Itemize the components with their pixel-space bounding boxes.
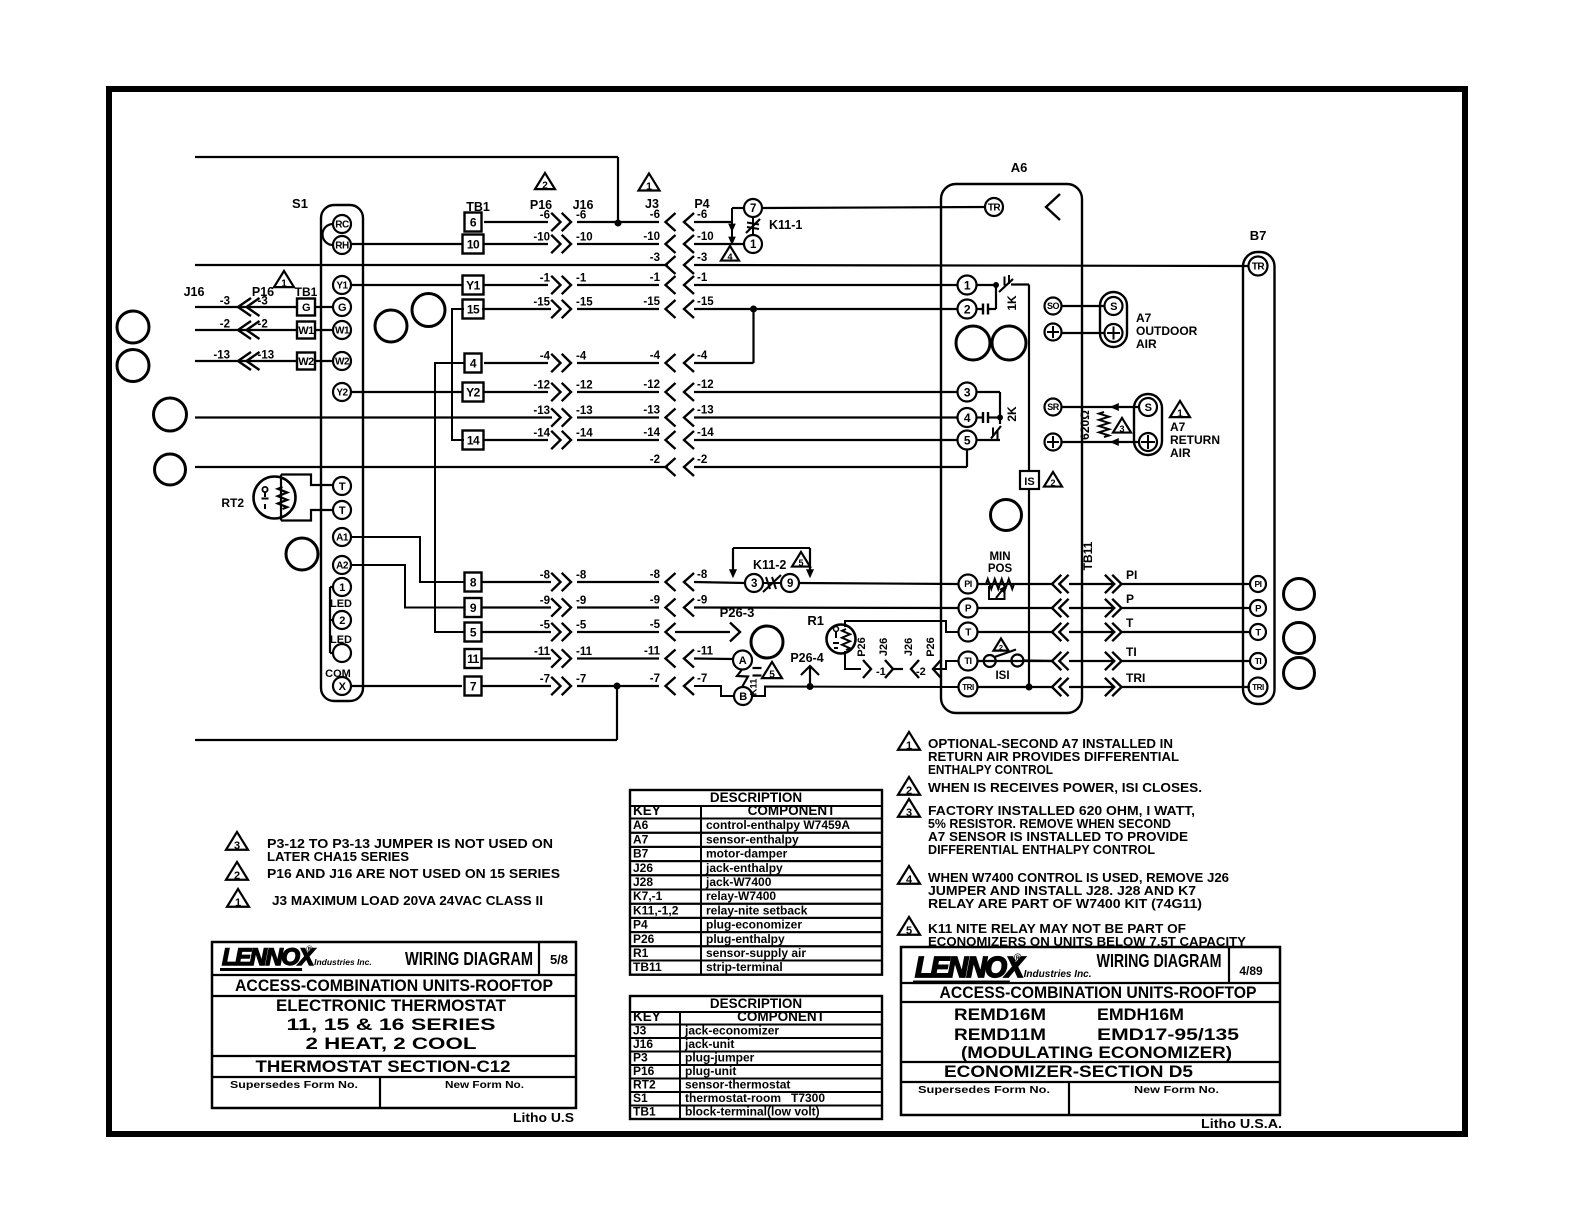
svg-text:RT2: RT2 [221, 496, 244, 510]
svg-text:Litho U.S: Litho U.S [513, 1111, 574, 1125]
svg-text:W1: W1 [298, 325, 314, 337]
svg-text:P: P [1126, 592, 1134, 606]
svg-text:2: 2 [999, 643, 1003, 652]
svg-text:T: T [339, 505, 346, 517]
svg-text:WIRING DIAGRAM: WIRING DIAGRAM [1097, 951, 1222, 971]
svg-text:3: 3 [964, 385, 971, 399]
svg-text:J26: J26 [633, 861, 653, 875]
svg-text:-12: -12 [697, 379, 714, 391]
svg-text:10: 10 [467, 237, 480, 251]
svg-text:TRI: TRI [1126, 671, 1145, 685]
svg-text:-8: -8 [697, 569, 708, 581]
svg-text:-4: -4 [540, 351, 551, 363]
svg-text:-7: -7 [576, 674, 586, 686]
svg-text:-9: -9 [697, 595, 707, 607]
svg-text:TB1: TB1 [295, 285, 318, 299]
svg-text:RT2: RT2 [633, 1078, 656, 1092]
svg-text:OUTDOOR: OUTDOOR [1136, 324, 1198, 338]
svg-text:W2: W2 [298, 356, 314, 368]
svg-text:-1: -1 [697, 272, 708, 284]
svg-text:K11-2: K11-2 [753, 558, 786, 572]
svg-text:EMD17-95/135: EMD17-95/135 [1097, 1026, 1239, 1044]
svg-text:sensor-enthalpy: sensor-enthalpy [706, 832, 799, 846]
svg-text:J3 MAXIMUM LOAD 20VA 24VAC CLA: J3 MAXIMUM LOAD 20VA 24VAC CLASS II [272, 893, 543, 908]
svg-text:SO: SO [1047, 301, 1060, 311]
svg-text:B7: B7 [1250, 228, 1267, 243]
svg-text:-2: -2 [220, 319, 230, 331]
svg-text:3: 3 [234, 840, 240, 852]
svg-text:6: 6 [470, 215, 477, 229]
svg-text:®: ® [306, 944, 313, 954]
svg-text:4: 4 [727, 252, 732, 262]
svg-text:P26: P26 [856, 637, 868, 657]
svg-text:A7: A7 [1136, 311, 1152, 325]
svg-text:-6: -6 [576, 210, 586, 222]
svg-text:ENTHALPY CONTROL: ENTHALPY CONTROL [928, 762, 1053, 777]
svg-text:P: P [965, 604, 972, 615]
svg-text:IS: IS [1024, 476, 1034, 488]
svg-text:W1: W1 [335, 326, 350, 337]
svg-text:-6: -6 [697, 209, 707, 221]
svg-text:Y2: Y2 [336, 388, 348, 399]
svg-text:7: 7 [750, 203, 756, 215]
svg-text:WIRING DIAGRAM: WIRING DIAGRAM [405, 949, 533, 969]
svg-text:J16: J16 [633, 1037, 653, 1051]
svg-text:PI: PI [1126, 568, 1137, 582]
svg-text:B: B [739, 691, 747, 703]
svg-text:4: 4 [470, 356, 477, 370]
svg-text:TB1: TB1 [633, 1105, 656, 1119]
svg-text:LENNOX: LENNOX [222, 944, 317, 971]
svg-text:-2: -2 [650, 454, 660, 466]
svg-text:K11-1: K11-1 [769, 218, 802, 232]
svg-text:RC: RC [335, 220, 349, 231]
svg-text:11: 11 [467, 652, 480, 666]
svg-text:-15: -15 [576, 297, 593, 309]
svg-text:1: 1 [235, 897, 241, 909]
svg-text:control-enthalpy W7459A: control-enthalpy W7459A [706, 818, 850, 832]
svg-text:2: 2 [234, 870, 240, 882]
svg-text:-8: -8 [576, 570, 587, 582]
svg-text:J3: J3 [633, 1024, 647, 1038]
svg-text:-5: -5 [576, 620, 587, 632]
svg-text:2: 2 [906, 785, 912, 797]
svg-text:LED: LED [330, 634, 352, 646]
svg-text:-6: -6 [650, 209, 660, 221]
svg-text:-2: -2 [258, 319, 268, 331]
svg-text:-13: -13 [643, 405, 660, 417]
svg-text:Industries Inc.: Industries Inc. [314, 957, 372, 967]
svg-text:-11: -11 [697, 646, 714, 658]
svg-text:3: 3 [906, 807, 912, 819]
svg-text:J26: J26 [903, 638, 915, 656]
svg-text:POS: POS [988, 563, 1013, 575]
svg-text:1: 1 [964, 278, 971, 292]
svg-text:Supersedes Form No.: Supersedes Form No. [230, 1079, 358, 1091]
svg-text:KEY: KEY [633, 803, 661, 818]
svg-text:-9: -9 [540, 595, 550, 607]
svg-text:-6: -6 [540, 210, 550, 222]
svg-text:jack-economizer: jack-economizer [684, 1024, 779, 1038]
svg-text:-4: -4 [576, 351, 587, 363]
svg-text:thermostat-room T7300: thermostat-room T7300 [685, 1091, 825, 1105]
svg-text:block-terminal(low volt): block-terminal(low volt) [685, 1105, 820, 1119]
svg-text:1: 1 [906, 740, 912, 752]
svg-text:J26: J26 [878, 638, 890, 656]
svg-text:RH: RH [335, 241, 349, 252]
svg-text:R1: R1 [807, 613, 824, 628]
svg-text:-1: -1 [876, 666, 886, 678]
svg-text:-12: -12 [576, 380, 593, 392]
svg-text:TB11: TB11 [633, 960, 662, 974]
svg-text:2: 2 [964, 302, 971, 316]
svg-text:WHEN IS RECEIVES POWER, ISI CL: WHEN IS RECEIVES POWER, ISI CLOSES. [928, 780, 1202, 795]
svg-text:COMPONENT: COMPONENT [737, 1009, 826, 1024]
svg-text:P3: P3 [633, 1051, 648, 1065]
svg-text:-10: -10 [576, 232, 593, 244]
svg-text:5: 5 [769, 669, 775, 680]
svg-text:11, 15 & 16 SERIES: 11, 15 & 16 SERIES [287, 1015, 496, 1034]
svg-text:K11: K11 [749, 678, 760, 696]
svg-text:J28: J28 [633, 875, 653, 889]
svg-text:A1: A1 [336, 533, 349, 544]
svg-text:A2: A2 [336, 561, 349, 572]
svg-text:sensor-thermostat: sensor-thermostat [685, 1078, 790, 1092]
svg-text:7: 7 [470, 679, 477, 693]
svg-text:1: 1 [1177, 408, 1183, 419]
svg-text:-14: -14 [697, 427, 714, 439]
svg-text:jack-enthalpy: jack-enthalpy [705, 861, 783, 875]
svg-text:REMD11M: REMD11M [954, 1026, 1046, 1044]
svg-text:X: X [339, 681, 347, 693]
svg-text:-15: -15 [643, 296, 660, 308]
svg-text:plug-enthalpy: plug-enthalpy [706, 932, 785, 946]
svg-text:5: 5 [798, 558, 803, 568]
svg-text:plug-unit: plug-unit [685, 1064, 736, 1078]
svg-text:J16: J16 [184, 285, 205, 299]
svg-text:TR: TR [988, 203, 1002, 214]
svg-text:2: 2 [542, 180, 548, 191]
svg-text:W2: W2 [335, 357, 350, 368]
svg-text:S: S [1145, 402, 1152, 414]
svg-text:relay-nite setback: relay-nite setback [706, 903, 808, 917]
svg-text:P4: P4 [633, 918, 648, 932]
svg-text:S1: S1 [633, 1091, 648, 1105]
svg-text:AIR: AIR [1170, 446, 1191, 460]
svg-text:-5: -5 [540, 620, 551, 632]
svg-text:Y2: Y2 [466, 385, 481, 399]
svg-text:ISI: ISI [995, 670, 1009, 682]
svg-text:-11: -11 [576, 646, 593, 658]
svg-text:-4: -4 [697, 350, 708, 362]
svg-text:K11,-1,2: K11,-1,2 [633, 903, 679, 917]
svg-text:2 HEAT, 2 COOL: 2 HEAT, 2 COOL [306, 1034, 477, 1053]
svg-text:TRI: TRI [962, 683, 974, 692]
svg-text:Supersedes Form No.: Supersedes Form No. [918, 1084, 1050, 1096]
svg-text:-3: -3 [650, 252, 660, 264]
svg-text:1K: 1K [1005, 295, 1019, 311]
svg-text:ELECTRONIC THERMOSTAT: ELECTRONIC THERMOSTAT [276, 996, 507, 1015]
svg-text:REMD16M: REMD16M [954, 1006, 1046, 1024]
svg-text:T: T [1126, 616, 1134, 630]
svg-text:-15: -15 [533, 297, 550, 309]
svg-text:-13: -13 [533, 405, 550, 417]
svg-text:1: 1 [339, 582, 345, 594]
svg-text:-7: -7 [540, 674, 550, 686]
svg-text:9: 9 [470, 601, 477, 615]
svg-text:-1: -1 [540, 273, 551, 285]
svg-text:-9: -9 [650, 595, 660, 607]
svg-text:8: 8 [470, 575, 477, 589]
svg-text:P16 AND J16 ARE NOT USED ON 15: P16 AND J16 ARE NOT USED ON 15 SERIES [267, 866, 560, 881]
svg-text:-13: -13 [258, 350, 275, 362]
svg-text:T: T [965, 628, 971, 639]
svg-text:3: 3 [1119, 424, 1124, 434]
svg-text:A: A [739, 655, 747, 667]
svg-text:-3: -3 [220, 296, 230, 308]
svg-text:-4: -4 [650, 350, 661, 362]
svg-text:-1: -1 [576, 273, 587, 285]
svg-text:2: 2 [339, 615, 345, 627]
svg-text:plug-economizer: plug-economizer [706, 918, 802, 932]
svg-text:T: T [1255, 627, 1261, 638]
svg-text:LATER CHA15 SERIES: LATER CHA15 SERIES [267, 849, 409, 864]
svg-text:DIFFERENTIAL ENTHALPY CONTROL: DIFFERENTIAL ENTHALPY CONTROL [928, 842, 1155, 857]
svg-text:P26-3: P26-3 [720, 605, 755, 620]
svg-text:620Ω: 620Ω [1078, 410, 1092, 440]
svg-text:THERMOSTAT SECTION-C12: THERMOSTAT SECTION-C12 [256, 1057, 511, 1076]
svg-text:RELAY ARE PART OF W7400 KIT (7: RELAY ARE PART OF W7400 KIT (74G11) [928, 896, 1202, 911]
svg-text:-1: -1 [650, 272, 661, 284]
svg-text:-13: -13 [697, 405, 714, 417]
svg-text:TI: TI [965, 656, 972, 666]
svg-text:TB1: TB1 [466, 200, 490, 214]
svg-text:4: 4 [906, 874, 913, 886]
svg-text:4: 4 [964, 411, 971, 425]
svg-text:ACCESS-COMBINATION UNITS-ROOFT: ACCESS-COMBINATION UNITS-ROOFTOP [940, 983, 1257, 1002]
svg-text:PI: PI [1254, 579, 1261, 589]
svg-text:R1: R1 [633, 946, 649, 960]
svg-text:-11: -11 [644, 646, 661, 658]
svg-text:motor-damper: motor-damper [706, 847, 788, 861]
svg-text:-8: -8 [540, 570, 551, 582]
svg-text:LED: LED [330, 598, 352, 610]
svg-text:jack-W7400: jack-W7400 [705, 875, 772, 889]
svg-text:-2: -2 [697, 454, 707, 466]
svg-text:(MODULATING ECONOMIZER): (MODULATING ECONOMIZER) [961, 1044, 1232, 1062]
svg-text:jack-unit: jack-unit [684, 1037, 734, 1051]
svg-text:New Form No.: New Form No. [1134, 1084, 1219, 1096]
svg-text:9: 9 [787, 578, 793, 590]
svg-text:T: T [339, 481, 346, 493]
svg-text:G: G [302, 302, 310, 314]
svg-text:ECONOMIZER-SECTION D5: ECONOMIZER-SECTION D5 [944, 1062, 1193, 1081]
svg-text:-14: -14 [576, 428, 593, 440]
svg-text:-8: -8 [650, 569, 661, 581]
svg-text:-3: -3 [697, 252, 707, 264]
svg-text:A6: A6 [633, 818, 649, 832]
svg-text:P16: P16 [633, 1064, 655, 1078]
svg-text:-14: -14 [533, 428, 550, 440]
svg-text:-14: -14 [643, 427, 660, 439]
svg-text:-12: -12 [533, 380, 550, 392]
svg-text:Litho U.S.A.: Litho U.S.A. [1201, 1117, 1282, 1131]
svg-text:4/89: 4/89 [1239, 964, 1263, 978]
svg-text:COMPONENT: COMPONENT [748, 803, 837, 818]
svg-text:5: 5 [964, 433, 971, 447]
svg-text:®: ® [1014, 952, 1022, 964]
svg-text:-5: -5 [650, 619, 661, 631]
svg-text:SR: SR [1047, 402, 1060, 412]
svg-text:-7: -7 [650, 673, 660, 685]
svg-text:S: S [1110, 301, 1117, 313]
svg-text:TR: TR [1252, 262, 1266, 273]
svg-text:Industries Inc.: Industries Inc. [1024, 969, 1092, 980]
svg-text:-10: -10 [643, 231, 660, 243]
svg-text:MIN: MIN [989, 551, 1010, 563]
svg-text:-3: -3 [258, 296, 268, 308]
svg-text:Y1: Y1 [336, 281, 348, 292]
svg-text:KEY: KEY [633, 1009, 661, 1024]
svg-text:P26-4: P26-4 [790, 651, 823, 665]
svg-text:5: 5 [470, 625, 477, 639]
svg-text:Y1: Y1 [466, 278, 481, 292]
svg-text:TI: TI [1255, 656, 1262, 666]
svg-text:TRI: TRI [1252, 683, 1264, 692]
svg-text:plug-jumper: plug-jumper [685, 1051, 755, 1065]
svg-text:New Form No.: New Form No. [445, 1079, 524, 1091]
svg-text:3: 3 [751, 578, 757, 590]
svg-text:A7: A7 [633, 832, 649, 846]
svg-text:14: 14 [467, 433, 480, 447]
svg-text:-10: -10 [533, 232, 550, 244]
svg-text:2: 2 [1050, 478, 1055, 488]
svg-text:K7,-1: K7,-1 [633, 889, 663, 903]
svg-text:A6: A6 [1011, 160, 1028, 175]
svg-text:S1: S1 [292, 196, 308, 211]
svg-text:TI: TI [1126, 645, 1137, 659]
svg-text:AIR: AIR [1136, 337, 1157, 351]
svg-text:sensor-supply air: sensor-supply air [706, 946, 806, 960]
svg-text:-7: -7 [697, 673, 707, 685]
svg-text:5/8: 5/8 [550, 952, 568, 967]
svg-text:relay-W7400: relay-W7400 [706, 889, 776, 903]
svg-text:EMDH16M: EMDH16M [1097, 1006, 1184, 1024]
svg-text:ACCESS-COMBINATION UNITS-ROOFT: ACCESS-COMBINATION UNITS-ROOFTOP [235, 976, 553, 995]
svg-text:-10: -10 [697, 231, 714, 243]
svg-text:-13: -13 [576, 405, 593, 417]
svg-text:1: 1 [646, 181, 652, 193]
svg-text:P26: P26 [925, 637, 937, 657]
svg-text:G: G [338, 302, 346, 314]
svg-text:A7: A7 [1170, 420, 1186, 434]
svg-text:-13: -13 [213, 350, 230, 362]
svg-text:5: 5 [906, 925, 912, 937]
svg-text:15: 15 [467, 302, 480, 316]
svg-text:-2: -2 [916, 666, 926, 678]
svg-text:B7: B7 [633, 847, 649, 861]
svg-text:RETURN: RETURN [1170, 433, 1220, 447]
svg-text:LENNOX: LENNOX [915, 952, 1026, 984]
svg-text:TB11: TB11 [1081, 541, 1095, 570]
svg-text:strip-terminal: strip-terminal [706, 960, 783, 974]
svg-text:-15: -15 [697, 296, 714, 308]
svg-text:2K: 2K [1005, 406, 1019, 422]
svg-text:-9: -9 [576, 595, 586, 607]
svg-text:1: 1 [281, 278, 287, 289]
svg-text:-12: -12 [643, 379, 660, 391]
svg-text:-11: -11 [534, 646, 551, 658]
svg-text:P26: P26 [633, 932, 655, 946]
svg-text:PI: PI [964, 579, 972, 589]
